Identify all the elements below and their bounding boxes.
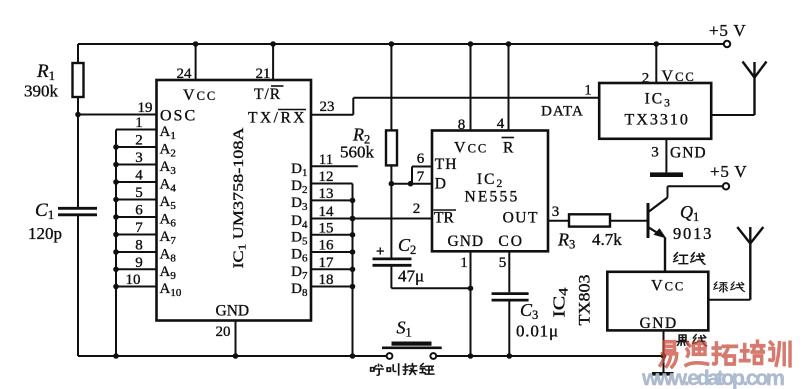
IC1 rotated label IC1 UM3758-108A <box>231 127 249 268</box>
IC1 label GND <box>216 303 250 320</box>
svg-text:15: 15 <box>319 220 334 236</box>
IC2 label R pin 4 <box>502 138 515 157</box>
ground symbol IC4 <box>652 372 674 376</box>
svg-text:VCC: VCC <box>662 68 696 85</box>
node: address bus to ground rail <box>113 353 119 359</box>
svg-text:4.7k: 4.7k <box>592 230 622 249</box>
svg-text:+5 V: +5 V <box>710 162 748 181</box>
resistor R1 390k <box>24 44 84 115</box>
wire: 555 pin 1 GND <box>460 251 473 359</box>
label: black wire (Chinese) <box>677 335 706 346</box>
IC1 label TX/RX pin 23 <box>248 110 307 127</box>
svg-text:DATA: DATA <box>541 104 584 120</box>
wire: pin 24 Vcc <box>177 41 199 82</box>
pin numbers 1-10 <box>126 115 144 288</box>
svg-text:19: 19 <box>138 100 153 116</box>
wire: 555 pin 4 reset <box>497 41 512 132</box>
svg-text:6: 6 <box>417 151 425 167</box>
svg-text:4: 4 <box>135 168 143 184</box>
IC1 label OSC <box>160 108 197 125</box>
pushbutton S1 <box>382 318 442 359</box>
svg-text:6: 6 <box>135 203 143 219</box>
svg-text:24: 24 <box>177 66 193 82</box>
svg-text:3: 3 <box>135 150 143 166</box>
op-amp/IC U4: IC4 TX803 box <box>607 272 708 331</box>
wire: pin 21 T/R <box>256 41 276 82</box>
wire: DATA line to IC3 <box>353 98 599 120</box>
wire: D1 stub pin 11 <box>311 165 358 167</box>
pin numbers 11-18 <box>319 152 335 288</box>
svg-text:8: 8 <box>458 117 466 133</box>
svg-text:T/R: T/R <box>254 86 281 103</box>
IC3 pin 1 label <box>584 83 592 99</box>
wire: pin 20 GND <box>216 321 239 359</box>
svg-text:GND: GND <box>216 303 250 320</box>
svg-text:OUT: OUT <box>503 209 539 226</box>
IC2 label OUT <box>503 209 539 226</box>
svg-text:11: 11 <box>319 152 333 168</box>
IC1 label T/R pin 21 <box>254 86 284 103</box>
wire: address bus A1-A10 <box>113 130 156 357</box>
watermark url <box>641 366 785 389</box>
svg-text:1: 1 <box>135 115 143 131</box>
IC2 label GND <box>448 233 485 250</box>
svg-text:NE555: NE555 <box>465 189 520 206</box>
IC4 label GND <box>640 315 678 332</box>
wire: ground rail (bottom) <box>78 355 664 357</box>
+5V terminal top right <box>709 21 747 47</box>
svg-text:2: 2 <box>642 71 650 87</box>
wire + antenna (bottom, green wire) <box>708 227 763 300</box>
svg-text:CO: CO <box>498 233 524 250</box>
wire: 555 OUT pin 3 <box>548 204 569 221</box>
wire: +5V top supply rail <box>78 43 727 45</box>
svg-text:1: 1 <box>460 255 468 271</box>
svg-text:13: 13 <box>319 186 334 202</box>
resistor R2 560k <box>340 41 397 184</box>
wire: IC4 GND to ground (black wire) <box>661 330 667 372</box>
svg-text:10: 10 <box>126 272 141 288</box>
svg-text:2: 2 <box>135 133 143 149</box>
svg-text:2: 2 <box>413 201 421 217</box>
svg-text:23: 23 <box>320 99 335 115</box>
IC2 label IC2 <box>477 171 504 190</box>
wire: D4/TR pin 2 <box>311 201 432 221</box>
svg-text:TX3310: TX3310 <box>625 112 690 129</box>
svg-text:20: 20 <box>216 324 231 340</box>
label: red wire (Chinese) <box>674 253 705 265</box>
transistor Q1 9013 <box>648 186 713 243</box>
ground symbol IC3 <box>650 172 683 177</box>
wire: IC3 pin 3 GND <box>651 139 706 173</box>
label: green wire (Chinese) <box>714 282 745 292</box>
node: R1 / OSC junction <box>75 112 81 118</box>
svg-text:OSC: OSC <box>160 108 197 125</box>
svg-text:9: 9 <box>135 255 143 271</box>
resistor R3 4.7k <box>557 214 647 251</box>
capacitor C1 120p <box>28 115 97 357</box>
IC2 label TR pin 2 <box>434 209 457 226</box>
IC2 label CO <box>498 233 524 250</box>
IC3 label TX3310 <box>625 112 690 129</box>
svg-text:R: R <box>503 140 514 157</box>
svg-text:VCC: VCC <box>183 87 217 104</box>
svg-text:0.01μ: 0.01μ <box>516 322 559 341</box>
wire: D pin 7 <box>389 169 432 187</box>
IC1 pin names A1-A10 <box>160 124 182 299</box>
svg-text:4: 4 <box>497 116 505 132</box>
IC4 rotated ref label <box>550 287 571 318</box>
svg-text:GND: GND <box>640 315 678 332</box>
svg-text:47μ: 47μ <box>398 267 424 286</box>
svg-text:+: + <box>376 244 385 260</box>
svg-text:TX/RX: TX/RX <box>248 110 307 127</box>
svg-text:www.edatop.com: www.edatop.com <box>641 366 785 389</box>
IC1 pin names D1-D8 <box>291 161 308 299</box>
IC3 label <box>645 91 672 110</box>
svg-text:21: 21 <box>256 66 271 82</box>
svg-text:GND: GND <box>448 233 485 250</box>
svg-text:7: 7 <box>135 220 143 236</box>
IC2 label D <box>435 175 446 192</box>
+5V terminal right <box>668 162 748 190</box>
svg-text:+5 V: +5 V <box>709 21 747 40</box>
wire: emitter to IC4 Vcc (red wire) <box>664 238 666 272</box>
svg-text:7: 7 <box>417 169 425 185</box>
svg-text:GND: GND <box>670 145 707 162</box>
svg-text:12: 12 <box>319 169 334 185</box>
wire: 555 pin 8 Vcc <box>458 41 474 133</box>
svg-text:18: 18 <box>319 272 334 288</box>
svg-text:5: 5 <box>135 185 143 201</box>
wire: IC3 pin 2 Vcc <box>642 41 696 86</box>
watermark logo text <box>660 341 790 367</box>
svg-text:D: D <box>435 175 446 192</box>
label: call button (Chinese) <box>371 364 434 376</box>
svg-text:3: 3 <box>651 145 659 161</box>
svg-text:3: 3 <box>552 204 560 220</box>
svg-text:VCC: VCC <box>454 140 488 157</box>
op-amp/IC U3: IC3 TX3310 box <box>599 83 711 139</box>
svg-text:5: 5 <box>499 255 507 271</box>
svg-text:17: 17 <box>319 255 335 271</box>
op-amp/IC U2: NE555 box <box>432 131 548 252</box>
wire: data bus D2-D8 to ground <box>311 184 355 357</box>
svg-text:VCC: VCC <box>651 278 685 295</box>
svg-text:8: 8 <box>135 238 143 254</box>
IC2 label Vcc <box>454 140 488 157</box>
svg-text:TR: TR <box>434 209 454 226</box>
wire: pin 23 TX/RX out <box>311 98 353 115</box>
svg-text:TX803: TX803 <box>577 275 594 326</box>
svg-text:9013: 9013 <box>673 224 713 243</box>
IC4 rotated part label TX803 <box>577 275 594 326</box>
svg-text:TH: TH <box>435 156 458 173</box>
capacitor C3 0.01u <box>492 294 559 359</box>
wire: OSC pin 19 <box>78 100 157 116</box>
svg-text:390k: 390k <box>24 82 59 101</box>
op-amp/IC U1: IC1 UM3758-108A box <box>157 80 312 321</box>
svg-text:560k: 560k <box>340 143 375 162</box>
svg-text:120p: 120p <box>28 224 62 243</box>
IC2 label TH <box>435 156 458 173</box>
node: data bus to ground rail <box>350 353 356 359</box>
IC2 label NE555 <box>465 189 520 206</box>
IC1 label Vcc <box>183 87 217 104</box>
IC4 label Vcc <box>651 278 685 295</box>
svg-text:1: 1 <box>584 83 592 99</box>
wire: TH pin 6 jog <box>412 151 432 184</box>
wire + antenna (top) <box>711 62 766 116</box>
svg-text:16: 16 <box>319 238 335 254</box>
capacitor C2 47u <box>373 184 471 289</box>
wire: 555 pin 5 CO <box>499 251 510 292</box>
